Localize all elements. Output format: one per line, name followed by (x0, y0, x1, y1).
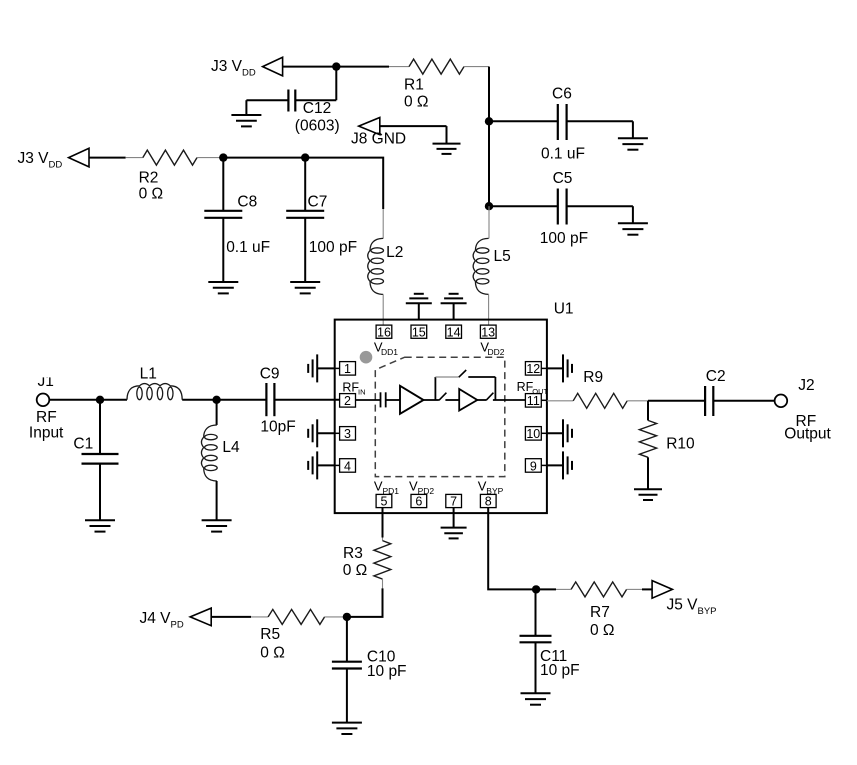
node dot C10 tap (343, 613, 351, 621)
pin 14 box (446, 325, 462, 339)
svg-text:RF: RF (36, 409, 57, 426)
svg-text:C1: C1 (73, 436, 93, 453)
svg-text:L5: L5 (494, 248, 511, 265)
node junction dot at C12 tap (332, 62, 340, 70)
svg-text:Output: Output (784, 426, 831, 443)
svg-text:R3: R3 (343, 545, 363, 562)
internal amplifier 2 (459, 389, 477, 411)
wire pin5 to R3 (382, 508, 384, 538)
pin 11 box (525, 394, 547, 409)
svg-text:J5 V: J5 V (667, 597, 699, 614)
connector J3 VDD (second) arrow (18, 148, 90, 170)
inductor L2 (368, 238, 404, 294)
wire column to L5 (488, 206, 490, 238)
svg-text:DD: DD (242, 68, 256, 79)
svg-text:RF: RF (517, 380, 534, 394)
svg-text:OUT: OUT (532, 387, 548, 396)
wire J1 to C1 node (49, 399, 100, 401)
svg-text:0 Ω: 0 Ω (590, 622, 615, 639)
svg-text:DD: DD (49, 160, 63, 171)
svg-text:10: 10 (526, 427, 540, 441)
ground above pin 14 (441, 294, 467, 320)
internal switch 1 diagonal (439, 393, 447, 401)
ground at C7 (290, 282, 320, 293)
svg-text:8: 8 (485, 495, 492, 509)
svg-text:RF: RF (342, 381, 359, 395)
wire J3-2 arrow to R2 (89, 157, 126, 159)
svg-text:C2: C2 (706, 368, 726, 385)
ground at C6 (618, 121, 648, 149)
svg-text:C9: C9 (260, 366, 280, 383)
capacitor C5 (489, 170, 633, 247)
svg-text:BYP: BYP (486, 486, 503, 496)
svg-text:J8 GND: J8 GND (351, 131, 406, 148)
node dot C5 tap (485, 202, 493, 210)
resistor R7 (571, 582, 627, 639)
wire R2 to C8 node (197, 157, 223, 159)
svg-text:16: 16 (377, 325, 391, 339)
connector J5 VBYP arrow (652, 581, 716, 617)
ground at pin 9 (547, 451, 572, 479)
internal bypass riser (434, 377, 436, 400)
resistor R2 (139, 150, 197, 202)
wire C11 node to R7 (536, 588, 556, 590)
internal bypass switch diagonal (459, 370, 466, 377)
svg-text:100 pF: 100 pF (309, 239, 357, 256)
inductor L1 (100, 366, 217, 400)
inductor L4 (201, 400, 240, 520)
pin 1 box (335, 362, 356, 377)
svg-text:PD: PD (171, 620, 184, 631)
connector J4 VPD arrow (140, 608, 212, 630)
label RF IN (342, 381, 365, 397)
ground above pin 15 (406, 294, 432, 320)
ground at pin 10 (547, 419, 572, 447)
node dot C7 tap (301, 153, 309, 161)
ground at C1 (85, 520, 115, 531)
ground at pin 4 (308, 451, 335, 479)
ground at J8 (433, 144, 461, 154)
wire L2 to pin16 (382, 294, 384, 325)
label RF OUT (517, 380, 549, 396)
wire C2 to J2 (713, 400, 774, 402)
svg-text:DD1: DD1 (381, 347, 398, 357)
svg-text:11: 11 (527, 394, 540, 408)
svg-text:PD1: PD1 (383, 486, 400, 496)
svg-text:10 pF: 10 pF (540, 662, 580, 679)
svg-text:IN: IN (358, 388, 366, 397)
svg-text:J3 V: J3 V (211, 58, 243, 75)
wire C7 node to L2 corner (305, 158, 383, 209)
svg-text:R9: R9 (583, 369, 603, 386)
node dot C8 tap (219, 153, 227, 161)
svg-text:PD2: PD2 (418, 486, 435, 496)
svg-text:C6: C6 (552, 86, 572, 103)
svg-text:(0603): (0603) (295, 118, 340, 135)
ground at C8 (208, 282, 238, 293)
pin 1 marker gray dot (360, 351, 373, 364)
svg-text:Input: Input (29, 425, 64, 442)
svg-text:3: 3 (344, 427, 351, 441)
internal input capacitor (356, 392, 401, 407)
svg-text:L4: L4 (222, 439, 240, 456)
svg-text:C7: C7 (308, 194, 328, 211)
node dot C6 tap (485, 117, 493, 125)
ground at C12 (231, 100, 261, 126)
wire R7 to J5 arrow (627, 588, 642, 590)
wire R9 to R10 node (627, 400, 648, 402)
svg-text:7: 7 (450, 495, 457, 509)
capacitor C7 (286, 158, 357, 282)
capacitor C11 (520, 589, 580, 693)
node dot C11 tap (532, 585, 540, 593)
label VPD1 (374, 479, 399, 497)
resistor R9 (573, 369, 627, 408)
resistor R1 (404, 59, 464, 110)
pin 3 box (335, 427, 356, 442)
label VBYP (478, 479, 504, 497)
pin 9 box (525, 459, 547, 474)
wire L5 to pin13 (488, 294, 490, 325)
dashed internal block (375, 357, 505, 476)
svg-text:0 Ω: 0 Ω (343, 562, 368, 579)
wire R1 to right column (464, 66, 489, 68)
pin 4 box (335, 459, 356, 474)
wire J8 to ground (380, 125, 447, 127)
pin 6 box (411, 494, 427, 508)
node dot L4 tap (212, 396, 220, 404)
svg-text:0.1 uF: 0.1 uF (541, 146, 585, 163)
capacitor C6 (489, 86, 633, 163)
svg-text:R7: R7 (590, 604, 610, 621)
svg-text:1: 1 (344, 362, 351, 376)
wire L4 node to C9 (217, 399, 267, 401)
svg-text:R1: R1 (404, 77, 424, 94)
svg-text:U1: U1 (554, 301, 574, 318)
label VDD2 (480, 340, 504, 358)
svg-text:10 pF: 10 pF (367, 663, 407, 680)
svg-text:0 Ω: 0 Ω (139, 186, 164, 203)
svg-text:J3 V: J3 V (18, 150, 50, 167)
capacitor C12 (246, 67, 339, 135)
ground at R10 (634, 489, 662, 500)
internal amplifier 1 (400, 386, 424, 414)
pin 10 box (525, 427, 547, 442)
svg-text:DD2: DD2 (488, 347, 505, 357)
wire C8 node to C7 node (223, 157, 305, 159)
svg-text:L1: L1 (140, 366, 157, 383)
capacitor C8 (204, 158, 270, 282)
wire R5 to C10 node (325, 616, 347, 618)
ground at pin 1 (308, 354, 335, 382)
svg-text:J2: J2 (798, 377, 814, 394)
wire right column vertical (488, 67, 490, 207)
svg-text:R10: R10 (666, 436, 695, 453)
capacitor C1 (73, 400, 118, 520)
wire J4 arrow to R5 (211, 616, 251, 618)
wire J3 arrow to R1 (283, 66, 389, 68)
port J2 (775, 377, 832, 443)
resistor R5 (260, 609, 324, 661)
node dot C1 tap (96, 396, 104, 404)
pin 15 box (411, 325, 427, 339)
svg-text:0 Ω: 0 Ω (260, 645, 285, 662)
ground at pin 7 (441, 508, 467, 539)
pin 13 box (480, 325, 496, 339)
svg-text:C5: C5 (553, 170, 573, 187)
ground at C10 (332, 723, 362, 734)
ground at C5 (618, 206, 648, 235)
svg-text:6: 6 (415, 495, 422, 509)
connector J8 GND arrow (351, 118, 406, 148)
pin 12 box (525, 362, 547, 377)
svg-text:C8: C8 (237, 194, 257, 211)
svg-text:0.1 uF: 0.1 uF (226, 239, 270, 256)
pin 2 box (340, 394, 356, 409)
ground at pin 3 (308, 419, 335, 447)
svg-text:5: 5 (381, 495, 388, 509)
resistor R3 (343, 541, 391, 580)
svg-text:L2: L2 (386, 244, 403, 261)
ground at L4 (202, 520, 232, 531)
label VPD2 (409, 479, 434, 497)
ground at C11 (521, 693, 551, 704)
svg-text:0 Ω: 0 Ω (404, 94, 429, 111)
svg-text:15: 15 (412, 325, 426, 339)
pin 5 box (376, 494, 392, 508)
pin 8 box (480, 494, 496, 508)
svg-text:C12: C12 (303, 100, 331, 117)
label VDD1 (374, 340, 398, 358)
IC U1 body (335, 301, 574, 514)
svg-text:14: 14 (447, 325, 461, 339)
svg-text:4: 4 (344, 459, 351, 473)
pin 16 box (376, 325, 392, 339)
inductor L5 (473, 238, 511, 294)
svg-text:R5: R5 (260, 626, 280, 643)
svg-text:BYP: BYP (698, 606, 717, 617)
capacitor C10 (332, 617, 407, 723)
svg-text:10pF: 10pF (260, 419, 295, 436)
wire C9 to pin2 (274, 399, 339, 401)
svg-text:13: 13 (481, 325, 495, 339)
svg-text:J4 V: J4 V (140, 610, 172, 627)
svg-text:2: 2 (344, 394, 351, 408)
wire pin11 to R9 (547, 400, 573, 402)
internal wire amp1 to switch (424, 399, 439, 401)
internal switch 2 diagonal (477, 399, 486, 401)
svg-text:9: 9 (530, 459, 537, 473)
port J1 (29, 362, 64, 442)
resistor R10 (639, 401, 695, 490)
svg-text:100 pF: 100 pF (540, 230, 588, 247)
wire pin8 to C11 node (488, 508, 536, 590)
capacitor C2 (705, 368, 726, 416)
pin 7 box (446, 494, 462, 508)
wire R3 to J4 node (382, 579, 384, 588)
svg-text:R2: R2 (139, 170, 159, 187)
ground at pin 12 (547, 354, 572, 382)
svg-text:12: 12 (526, 362, 540, 376)
capacitor C9 (260, 366, 296, 436)
connector J3 VDD (top) arrow (211, 57, 283, 78)
